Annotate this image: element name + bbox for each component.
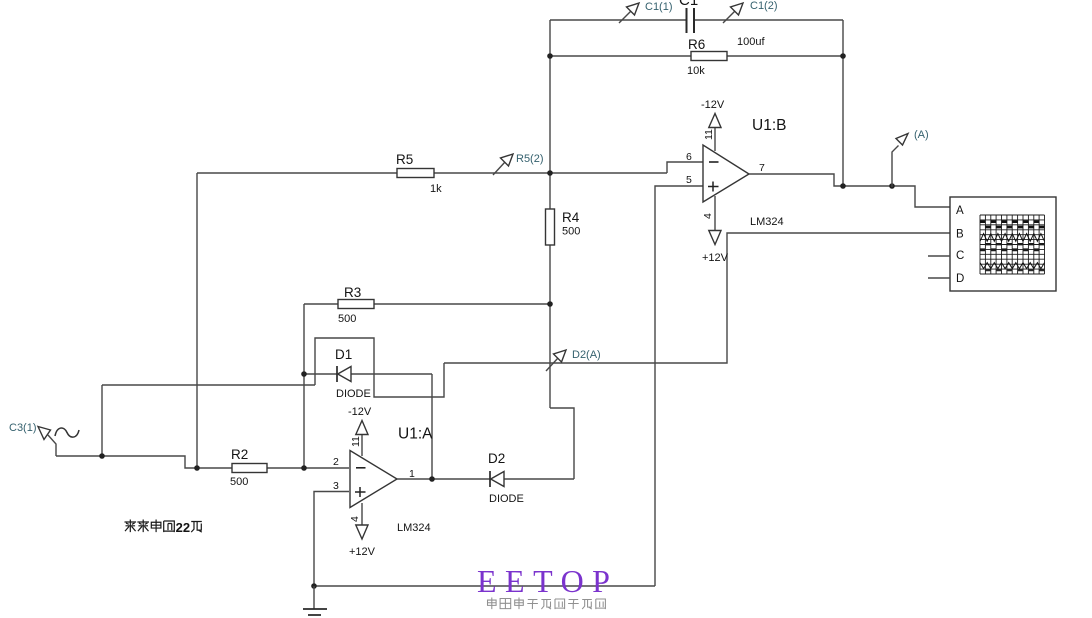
power pin 4 arrow +12V of U1:B xyxy=(702,196,729,264)
text 采样电阻22欧 xyxy=(125,520,202,536)
svg-text:4: 4 xyxy=(349,516,361,522)
display connector box xyxy=(950,197,1056,291)
probe D2(A) xyxy=(546,350,566,371)
op-amp U1:B xyxy=(703,117,786,228)
wire left column x=197 down to R2 input xyxy=(196,173,198,468)
wire left branch vertical x=550 from C1 down through R6,R5,R4,R3 rows to D2 return xyxy=(549,20,551,408)
probe (A) xyxy=(892,134,908,188)
wire x=432 from D1 row down to U1:A output xyxy=(431,374,433,480)
diode D1 xyxy=(335,347,371,400)
op-amp U1:A xyxy=(350,426,433,535)
node junction D1 left xyxy=(301,371,307,377)
svg-text:R5(2): R5(2) xyxy=(516,153,544,165)
svg-text:+12V: +12V xyxy=(349,546,376,558)
wire pin3 to ground rail xyxy=(314,492,349,587)
svg-text:2: 2 xyxy=(333,456,339,468)
svg-text:7: 7 xyxy=(759,162,765,174)
source C3(1) input terminal xyxy=(38,427,79,457)
wire input top rail y=385 xyxy=(102,384,315,386)
svg-text:R5: R5 xyxy=(396,152,413,167)
svg-text:11: 11 xyxy=(703,129,715,140)
wire input row to R2 and pin2 xyxy=(56,456,349,468)
svg-text:DIODE: DIODE xyxy=(336,388,371,400)
svg-text:D2(A): D2(A) xyxy=(572,349,601,361)
wire U1:A output row xyxy=(397,478,574,480)
svg-text:R6: R6 xyxy=(688,37,705,52)
display trace band 1 xyxy=(980,220,1045,223)
svg-text:1: 1 xyxy=(409,468,415,480)
display waveform trace lower xyxy=(980,263,1045,269)
svg-text:D1: D1 xyxy=(335,347,352,362)
watermark 中国电子顶级开发网 xyxy=(488,598,606,610)
svg-text:11: 11 xyxy=(350,436,362,447)
svg-text:R2: R2 xyxy=(231,447,248,462)
svg-text:6: 6 xyxy=(686,151,692,163)
svg-text:DIODE: DIODE xyxy=(489,493,524,505)
svg-text:D2: D2 xyxy=(488,451,505,466)
svg-text:3: 3 xyxy=(333,480,339,492)
node junction pin2 / D1 column xyxy=(301,465,307,471)
svg-text:EETOP: EETOP xyxy=(477,563,618,599)
svg-text:R3: R3 xyxy=(344,285,361,300)
probe R5(2) xyxy=(493,154,513,175)
svg-text:A: A xyxy=(956,205,964,217)
node junction right of R6 xyxy=(840,53,846,59)
svg-text:22: 22 xyxy=(176,520,190,535)
wire D2(A) net to display pin B xyxy=(444,233,950,363)
wire stub pin D xyxy=(928,277,950,279)
display trace band 2 xyxy=(985,243,1044,245)
node junction R3 right xyxy=(547,301,553,307)
wire R3 row xyxy=(304,303,550,305)
display trace band 3 xyxy=(985,269,1044,271)
svg-text:-12V: -12V xyxy=(701,99,725,111)
wire D2 return up to left branch xyxy=(550,408,574,479)
svg-text:-12V: -12V xyxy=(348,406,372,418)
capacitor C1 xyxy=(679,0,765,48)
svg-text:500: 500 xyxy=(230,476,248,488)
svg-text:500: 500 xyxy=(562,226,580,238)
svg-text:5: 5 xyxy=(686,174,692,186)
power pin 11 arrow -12V of U1:A xyxy=(348,406,372,456)
power pin 4 arrow +12V of U1:A xyxy=(349,503,376,558)
svg-text:D: D xyxy=(956,273,964,285)
display waveform trace upper xyxy=(980,234,1045,242)
svg-text:C3(1): C3(1) xyxy=(9,422,37,434)
wire pin6 jog xyxy=(667,162,703,173)
node junction R5 right / feedback xyxy=(547,170,553,176)
svg-text:LM324: LM324 xyxy=(750,216,784,228)
node junction output pin1 xyxy=(429,476,435,482)
node junction R5 column xyxy=(194,465,200,471)
svg-text:LM324: LM324 xyxy=(397,522,431,534)
node junction ground xyxy=(311,583,317,589)
svg-text:4: 4 xyxy=(702,213,714,219)
wire R5 row xyxy=(197,172,667,174)
svg-text:1k: 1k xyxy=(430,183,442,195)
power pin 11 arrow -12V of U1:B xyxy=(701,99,725,151)
resistor R6 xyxy=(687,37,727,77)
wire top feedback from node R5(2) to C1 left plate xyxy=(550,19,686,21)
wire R6 row xyxy=(550,55,843,57)
node junction probe (A) xyxy=(889,183,895,189)
diode D2 xyxy=(488,451,524,505)
wire U1:B output to display pin A xyxy=(749,174,950,207)
ground xyxy=(303,586,327,615)
svg-text:(A): (A) xyxy=(914,129,929,141)
svg-text:C1(2): C1(2) xyxy=(750,0,778,12)
node junction left of R6 xyxy=(547,53,553,59)
svg-text:B: B xyxy=(956,229,964,241)
svg-text:U1:A: U1:A xyxy=(398,426,433,443)
wire x=102 vertical xyxy=(101,385,103,456)
node junction feedback at output xyxy=(840,183,846,189)
svg-text:C: C xyxy=(956,250,964,262)
svg-text:100uf: 100uf xyxy=(737,36,765,48)
wire right branch vertical x=843 from C1 down to U1:B output xyxy=(842,20,844,186)
node junction input xyxy=(99,453,105,459)
svg-text:+12V: +12V xyxy=(702,252,729,264)
svg-text:R4: R4 xyxy=(562,210,580,225)
wire x=304 vertical R3 left down to pin2 row xyxy=(303,304,305,468)
probe C1(2) xyxy=(723,3,743,23)
svg-text:500: 500 xyxy=(338,313,356,325)
resistor R4 xyxy=(546,209,581,245)
resistor R3 xyxy=(338,285,374,325)
svg-text:C1(1): C1(1) xyxy=(645,1,673,13)
wire stub pin C xyxy=(928,255,950,257)
wire C1 right plate to right branch xyxy=(695,19,844,21)
wire bottom rail xyxy=(314,585,655,587)
svg-text:C1: C1 xyxy=(679,0,698,9)
display screen grid xyxy=(980,215,1045,274)
resistor R5 xyxy=(396,152,442,195)
probe C1(1) xyxy=(619,3,639,23)
resistor R2 xyxy=(230,447,267,488)
svg-text:10k: 10k xyxy=(687,65,705,77)
wire D1 row xyxy=(304,373,432,375)
wire pin5 column x=655 xyxy=(655,186,703,586)
wire D1 bypass box xyxy=(315,338,444,397)
svg-text:U1:B: U1:B xyxy=(752,117,786,134)
